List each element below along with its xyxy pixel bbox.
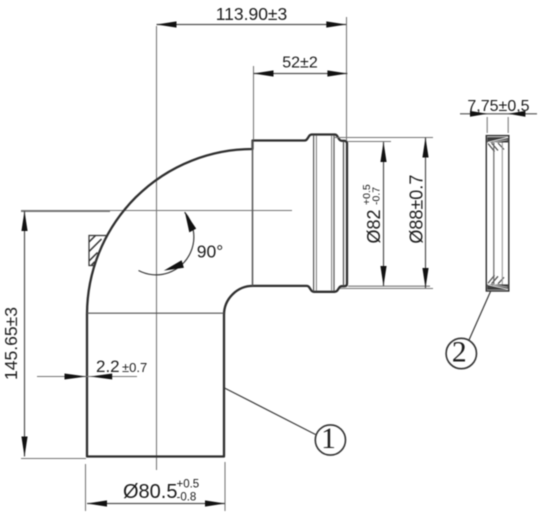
bend transition line <box>87 312 224 314</box>
dim 113.90 arrows <box>157 21 177 27</box>
dim 7.75 arrows <box>470 111 487 117</box>
svg-text:52±2: 52±2 <box>282 55 318 72</box>
angle arrow bottom <box>164 260 184 270</box>
bead left inner wall <box>313 135 315 291</box>
centerline vertical axis <box>156 26 158 470</box>
svg-text:Ø88±0.7: Ø88±0.7 <box>407 175 427 244</box>
elbow body outline <box>87 135 347 457</box>
dim 2.2 arrows <box>65 374 87 380</box>
dim dia82 extension top <box>348 141 391 143</box>
svg-text:2: 2 <box>452 337 467 369</box>
balloon 1 <box>315 425 345 455</box>
gasket outline <box>486 136 509 291</box>
svg-text:Ø80.5: Ø80.5 <box>123 481 177 503</box>
dim 145.65 extension top <box>21 211 110 213</box>
dim 52 line <box>254 73 348 75</box>
svg-text:-0.8: -0.8 <box>177 492 197 504</box>
socket entry interior line <box>252 141 254 286</box>
dim dia82 line <box>383 142 385 286</box>
svg-text:145.65±3: 145.65±3 <box>1 307 21 380</box>
svg-text:2.2: 2.2 <box>96 357 120 376</box>
dim 113.90 line <box>157 24 347 26</box>
balloon 1 leader <box>225 388 316 435</box>
centerline horizontal axis <box>21 210 292 212</box>
dim dia88 line <box>425 138 427 289</box>
dim dia88 extension bottom <box>340 288 433 290</box>
dim 7.75 line <box>460 113 537 115</box>
dim 145.65 line <box>24 211 26 457</box>
svg-text:+0.5: +0.5 <box>177 479 200 491</box>
dim dia82 arrows <box>380 142 386 162</box>
svg-text:113.90±3: 113.90±3 <box>216 4 288 24</box>
bead right inner wall <box>331 135 333 291</box>
dim 145.65 extension bottom <box>21 458 86 460</box>
dim 52 extension left <box>253 66 255 140</box>
svg-text:Ø82: Ø82 <box>364 209 384 243</box>
angle arrow top <box>185 212 196 233</box>
balloon 2 <box>446 338 476 368</box>
dim dia80.5 arrows <box>87 500 107 506</box>
dim 7.75 extensions <box>486 117 488 133</box>
dim 52 arrows <box>254 70 274 76</box>
svg-text:7,75±0,5: 7,75±0,5 <box>467 98 529 115</box>
balloon 2 leader <box>469 292 491 341</box>
svg-text:90°: 90° <box>197 241 223 261</box>
socket mouth rim inner line <box>343 142 345 286</box>
gasket top cap hatch <box>487 137 508 151</box>
90 degree angle arc <box>139 212 194 275</box>
svg-text:±0.7: ±0.7 <box>122 360 147 375</box>
dim 145.65 arrows <box>21 211 27 231</box>
dim 113.90 extension right <box>346 17 348 141</box>
mold mark hatched patch <box>89 236 107 266</box>
dim dia80.5 line <box>87 503 225 505</box>
gasket interior lip lines <box>493 143 495 285</box>
dim dia88 extension top <box>334 137 433 139</box>
dim dia82 extension bottom <box>348 285 430 287</box>
dim 2.2 leader line <box>37 376 137 378</box>
svg-text:1: 1 <box>321 423 336 455</box>
dim dia88 arrows <box>422 138 428 158</box>
dim dia80.5 extensions <box>85 464 87 511</box>
gasket bottom cap hatch <box>487 275 508 290</box>
svg-text:-0.7: -0.7 <box>371 187 383 205</box>
